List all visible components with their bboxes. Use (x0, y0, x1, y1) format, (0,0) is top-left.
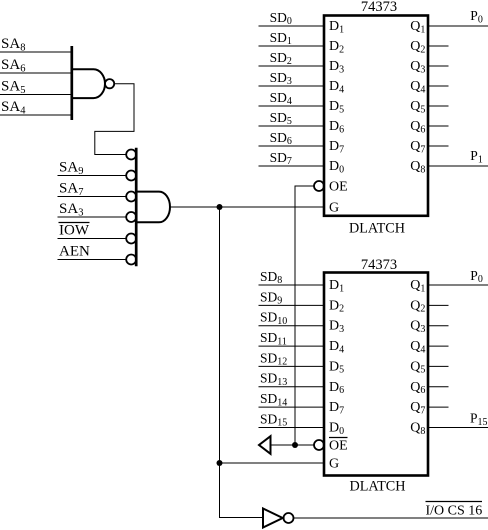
svg-text:SD9: SD9 (260, 289, 282, 306)
wire G (bottom latch) from vertical (220, 462, 325, 464)
wire AEN input (58, 259, 127, 261)
svg-text:I/O CS 16: I/O CS 16 (426, 504, 483, 519)
wire OE (top latch) to vertical (295, 186, 314, 445)
wire Q1 output to P0 (top latch) (428, 25, 488, 27)
svg-text:Q4: Q4 (410, 79, 425, 95)
svg-text:Q1: Q1 (410, 19, 425, 35)
svg-text:D6: D6 (329, 380, 344, 396)
svg-text:74373: 74373 (361, 257, 397, 273)
wire Q6 stub (top latch) (428, 125, 449, 127)
latch U4 74373 body (324, 273, 428, 476)
nand gate U1 input bar (70, 46, 73, 120)
svg-text:D3: D3 (329, 319, 344, 335)
wire SD7 input (259, 165, 325, 167)
svg-text:SD12: SD12 (260, 350, 287, 367)
svg-text:SA3: SA3 (59, 201, 83, 219)
wire Q4 stub (bottom latch) (428, 345, 449, 347)
wire Q6 stub (bottom latch) (428, 386, 449, 388)
svg-text:Q6: Q6 (410, 119, 425, 135)
wire SD5 input (259, 125, 325, 127)
svg-text:D6: D6 (329, 119, 344, 135)
wire Q7 stub (top latch) (428, 145, 449, 147)
svg-text:SD0: SD0 (270, 10, 292, 27)
svg-text:P15: P15 (470, 411, 488, 428)
svg-text:P0: P0 (470, 8, 483, 25)
and gate U2 body (137, 192, 170, 223)
svg-text:P0: P0 (470, 268, 483, 285)
svg-text:DLATCH: DLATCH (350, 479, 406, 495)
wire SD0 input (259, 25, 325, 27)
svg-text:Q1: Q1 (410, 278, 425, 294)
and gate U2 input bubble 4 (126, 212, 136, 222)
nand gate U1 body (72, 69, 105, 98)
svg-text:Q3: Q3 (410, 319, 425, 335)
pin OE bubble (bottom latch) (314, 440, 324, 450)
svg-text:P1: P1 (470, 148, 483, 165)
wire SD13 input (259, 386, 325, 388)
wire Q2 stub (bottom latch) (428, 304, 449, 306)
svg-text:AEN: AEN (59, 243, 90, 259)
wire from NAND output to AND first input (95, 84, 134, 155)
svg-text:SA7: SA7 (59, 180, 83, 198)
svg-text:OE: OE (329, 180, 348, 195)
svg-text:D2: D2 (329, 39, 344, 55)
wire SA9 input (58, 175, 127, 177)
wire Q7 stub (bottom latch) (428, 406, 449, 408)
wire Q5 stub (bottom latch) (428, 365, 449, 367)
svg-text:SD7: SD7 (270, 150, 292, 167)
and gate U2 input bubble 2 (126, 171, 136, 181)
svg-text:Q8: Q8 (410, 159, 425, 175)
wire SD11 input (259, 345, 325, 347)
svg-text:D7: D7 (329, 139, 344, 155)
svg-text:SD13: SD13 (260, 371, 287, 388)
svg-text:Q2: Q2 (410, 298, 425, 314)
wire Q8 output to P1 (top latch) (428, 165, 488, 167)
svg-text:D7: D7 (329, 400, 344, 416)
and gate U2 input bubble 1 (126, 150, 136, 160)
svg-text:Q4: Q4 (410, 339, 425, 355)
svg-text:SD8: SD8 (260, 269, 282, 286)
svg-text:SA6: SA6 (1, 57, 25, 75)
wire SD9 input (259, 304, 325, 306)
svg-text:SD6: SD6 (270, 130, 292, 147)
svg-text:D1: D1 (329, 19, 344, 35)
svg-text:SD1: SD1 (270, 30, 292, 47)
wire SA5 input (0, 94, 72, 96)
svg-text:Q7: Q7 (410, 139, 425, 155)
svg-text:SD5: SD5 (270, 110, 292, 127)
and gate U2 input bubble 6 (126, 255, 136, 265)
overline for I/O CS 16 (426, 501, 483, 503)
wire SA8 input (0, 51, 72, 53)
overline for IOW (59, 222, 90, 224)
wire SD10 input (259, 325, 325, 327)
wire inverter output to I/O CS 16 (294, 517, 488, 519)
junction dot AND output (217, 204, 223, 210)
svg-text:D3: D3 (329, 59, 344, 75)
overline for OE (bottom latch) (329, 437, 348, 439)
wire SA3 input (58, 216, 127, 218)
junction dot OE vertical meets OE row (292, 442, 298, 448)
wire SD15 input (259, 427, 325, 429)
svg-text:Q5: Q5 (410, 359, 425, 375)
pin OE bubble (top latch) (314, 181, 324, 191)
wire SD3 input (259, 85, 325, 87)
svg-text:D2: D2 (329, 298, 344, 314)
wire SA4 input (0, 114, 72, 116)
open triangle arrow on OE row (259, 436, 271, 454)
wire Q3 stub (bottom latch) (428, 325, 449, 327)
svg-text:SD15: SD15 (260, 411, 287, 428)
wire Q2 stub (top latch) (428, 45, 449, 47)
nand gate U1 output bubble (105, 79, 114, 88)
and gate U2 input bubble 5 (126, 234, 136, 244)
svg-text:SA4: SA4 (1, 99, 26, 117)
wire SD14 input (259, 406, 325, 408)
wire SA7 input (58, 196, 127, 198)
inverter U5 body (263, 509, 283, 528)
svg-text:Q3: Q3 (410, 59, 425, 75)
svg-text:D5: D5 (329, 359, 344, 375)
svg-text:D5: D5 (329, 99, 344, 115)
svg-text:SD11: SD11 (260, 330, 287, 347)
wire SD1 input (259, 45, 325, 47)
svg-text:DLATCH: DLATCH (349, 221, 405, 237)
wire Q3 stub (top latch) (428, 65, 449, 67)
svg-text:SA8: SA8 (1, 36, 25, 54)
svg-text:SD14: SD14 (260, 391, 287, 408)
svg-text:SA9: SA9 (59, 159, 83, 177)
wire SD8 input (259, 284, 325, 286)
wire SD12 input (259, 365, 325, 367)
wire Q8 output to P15 (bottom latch) (428, 427, 488, 429)
svg-text:D4: D4 (329, 339, 344, 355)
svg-text:SD4: SD4 (270, 90, 292, 107)
inverter U5 output bubble (284, 513, 294, 523)
wire Q5 stub (top latch) (428, 105, 449, 107)
svg-text:IOW: IOW (59, 222, 90, 238)
svg-text:G: G (329, 201, 339, 216)
svg-text:Q6: Q6 (410, 380, 425, 396)
svg-text:SD3: SD3 (270, 70, 292, 87)
wire SD4 input (259, 105, 325, 107)
svg-text:SD2: SD2 (270, 50, 292, 67)
and gate U2 input bubble 3 (126, 192, 136, 202)
wire AND output to G pin of top latch (170, 206, 324, 208)
wire SD2 input (259, 65, 325, 67)
wire Q1 output to P0 (bottom latch) (428, 284, 488, 286)
svg-text:Q8: Q8 (410, 421, 425, 437)
svg-text:D4: D4 (329, 79, 344, 95)
wire OE row (bottom latch) from triangle to bubble (271, 444, 315, 446)
wire vertical from junction down to bottom G and inverter (220, 207, 264, 518)
svg-text:D0: D0 (329, 159, 344, 175)
svg-text:74373: 74373 (361, 0, 397, 15)
wire SA6 input (0, 72, 72, 74)
svg-text:OE: OE (329, 439, 348, 454)
junction dot bottom G branch (217, 460, 223, 466)
wire Q4 stub (top latch) (428, 85, 449, 87)
svg-text:D0: D0 (329, 421, 344, 437)
wire IOW input (58, 238, 127, 240)
latch U3 74373 body (324, 16, 428, 216)
and gate U2 input bar (135, 148, 138, 267)
wire SD6 input (259, 145, 325, 147)
svg-text:Q7: Q7 (410, 400, 425, 416)
svg-text:SA5: SA5 (1, 78, 25, 96)
svg-text:D1: D1 (329, 278, 344, 294)
svg-text:SD10: SD10 (260, 310, 287, 327)
svg-text:G: G (329, 457, 339, 472)
svg-text:Q5: Q5 (410, 99, 425, 115)
svg-text:Q2: Q2 (410, 39, 425, 55)
